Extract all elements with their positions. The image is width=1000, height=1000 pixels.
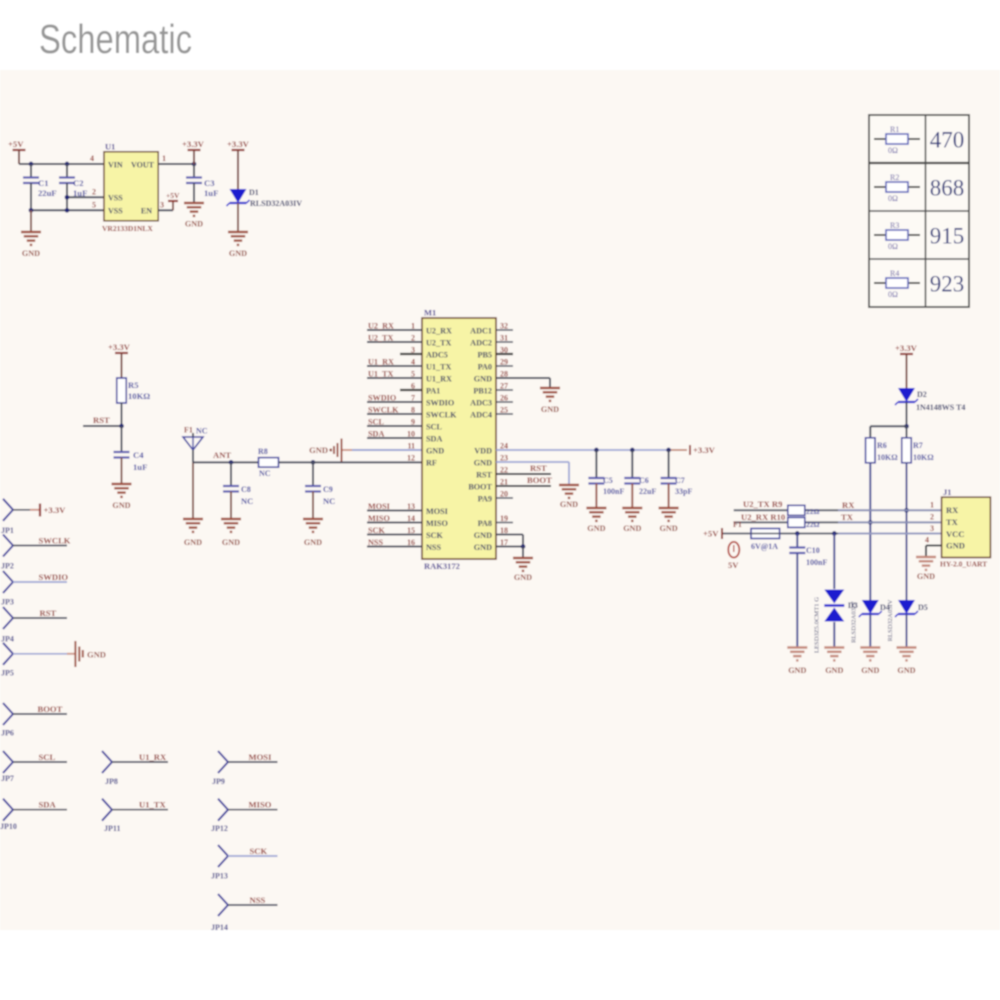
svg-text:J1: J1 — [943, 487, 952, 497]
svg-text:SCL: SCL — [426, 422, 442, 431]
svg-text:GND: GND — [514, 573, 532, 582]
svg-text:LESD3Z5.0CMT1 G: LESD3Z5.0CMT1 G — [814, 597, 821, 653]
svg-text:ADC5: ADC5 — [426, 350, 448, 359]
svg-text:MOSI: MOSI — [368, 502, 390, 511]
svg-text:+3.3V: +3.3V — [895, 343, 918, 353]
svg-text:4: 4 — [925, 536, 929, 545]
svg-text:C8: C8 — [241, 485, 251, 494]
svg-text:RAK3172: RAK3172 — [424, 561, 460, 571]
svg-text:U1: U1 — [105, 142, 115, 152]
svg-text:U2_TX R9: U2_TX R9 — [743, 499, 782, 509]
svg-text:JP5: JP5 — [1, 669, 14, 678]
svg-text:R5: R5 — [128, 380, 139, 390]
svg-text:MOSI: MOSI — [426, 507, 448, 516]
svg-text:BOOT: BOOT — [38, 704, 63, 714]
svg-text:10KΩ: 10KΩ — [128, 391, 150, 401]
svg-text:MISO: MISO — [368, 514, 390, 523]
svg-text:JP1: JP1 — [1, 526, 14, 535]
svg-text:2: 2 — [930, 513, 934, 522]
svg-text:U2_TX: U2_TX — [426, 338, 452, 347]
svg-text:NC: NC — [323, 496, 335, 506]
svg-text:ANT: ANT — [213, 450, 231, 460]
svg-text:+5V: +5V — [703, 529, 719, 539]
svg-text:1: 1 — [411, 322, 415, 331]
svg-text:SWCLK: SWCLK — [426, 410, 457, 419]
svg-text:M1: M1 — [424, 308, 436, 318]
svg-text:JP7: JP7 — [1, 774, 14, 783]
svg-text:BOOT: BOOT — [527, 475, 552, 485]
svg-text:GND: GND — [897, 666, 915, 675]
svg-text:GND: GND — [304, 538, 322, 547]
svg-text:U1_TX: U1_TX — [426, 362, 452, 371]
svg-text:0Ω: 0Ω — [888, 194, 898, 203]
svg-text:915: 915 — [930, 224, 965, 249]
svg-text:3: 3 — [930, 524, 934, 533]
svg-text:Schematic: Schematic — [39, 16, 192, 62]
svg-text:+3.3V: +3.3V — [227, 139, 250, 149]
svg-text:SWDIO: SWDIO — [426, 398, 454, 407]
svg-text:R6: R6 — [877, 441, 887, 450]
svg-text:+5V: +5V — [8, 139, 24, 149]
svg-text:PB12: PB12 — [473, 386, 492, 395]
svg-text:RLSD32A03IV: RLSD32A03IV — [887, 599, 894, 641]
svg-text:4: 4 — [90, 154, 94, 163]
svg-text:PA9: PA9 — [478, 494, 492, 503]
svg-text:PA0: PA0 — [478, 362, 492, 371]
svg-text:+5V: +5V — [166, 191, 180, 200]
svg-text:JP4: JP4 — [1, 635, 14, 644]
svg-text:9: 9 — [411, 418, 415, 427]
svg-text:3: 3 — [160, 201, 164, 210]
svg-text:RX: RX — [842, 500, 855, 510]
svg-text:VCC: VCC — [946, 529, 964, 539]
svg-text:U1_RX: U1_RX — [426, 374, 452, 383]
svg-text:VR2133D1NLX: VR2133D1NLX — [102, 224, 153, 233]
svg-text:470: 470 — [930, 128, 965, 153]
svg-text:1uF: 1uF — [204, 188, 218, 198]
svg-text:C9: C9 — [323, 485, 333, 494]
svg-text:100nF: 100nF — [603, 487, 624, 496]
svg-text:GND: GND — [22, 249, 40, 258]
svg-text:R3: R3 — [890, 221, 899, 230]
svg-text:GND: GND — [917, 572, 935, 581]
svg-text:JP8: JP8 — [105, 777, 118, 786]
svg-text:0Ω: 0Ω — [888, 242, 898, 251]
svg-text:U1_TX: U1_TX — [139, 800, 167, 810]
svg-text:GND: GND — [788, 666, 806, 675]
svg-text:26: 26 — [500, 394, 508, 403]
svg-text:1N4148WS T4: 1N4148WS T4 — [916, 403, 965, 412]
svg-text:2: 2 — [411, 334, 415, 343]
svg-text:6V@1A: 6V@1A — [751, 542, 778, 551]
svg-text:25: 25 — [500, 406, 508, 415]
svg-text:GND: GND — [222, 538, 240, 547]
svg-text:RLSD32A03IV: RLSD32A03IV — [250, 199, 302, 208]
svg-text:NSS: NSS — [368, 538, 383, 547]
svg-text:16: 16 — [407, 538, 415, 547]
svg-text:5V: 5V — [728, 560, 739, 570]
svg-text:U2_RX R10: U2_RX R10 — [741, 512, 785, 522]
svg-text:SWDIO: SWDIO — [368, 394, 396, 403]
svg-text:PA1: PA1 — [426, 386, 440, 395]
svg-text:RST: RST — [476, 470, 492, 479]
svg-text:19: 19 — [500, 514, 508, 523]
svg-text:100nF: 100nF — [806, 558, 827, 567]
svg-text:GND: GND — [87, 650, 106, 660]
svg-text:5: 5 — [411, 370, 415, 379]
svg-text:R7: R7 — [913, 441, 923, 450]
svg-text:MOSI: MOSI — [249, 752, 273, 762]
svg-text:C5: C5 — [603, 476, 613, 485]
svg-text:D2: D2 — [917, 390, 927, 399]
svg-text:NC: NC — [196, 427, 208, 436]
svg-text:U1_RX: U1_RX — [368, 358, 394, 367]
svg-text:PA8: PA8 — [478, 519, 492, 528]
svg-text:22Ω: 22Ω — [806, 507, 820, 516]
svg-text:D1: D1 — [249, 188, 259, 197]
svg-text:10KΩ: 10KΩ — [877, 453, 898, 462]
svg-text:1: 1 — [930, 501, 934, 510]
svg-text:C6: C6 — [639, 476, 649, 485]
svg-text:SCL: SCL — [39, 752, 56, 762]
svg-text:C3: C3 — [204, 178, 215, 188]
svg-text:JP14: JP14 — [211, 923, 228, 932]
svg-text:20: 20 — [500, 490, 508, 499]
svg-text:GND: GND — [112, 501, 130, 510]
svg-text:SWCLK: SWCLK — [368, 406, 399, 415]
svg-text:VSS: VSS — [108, 193, 123, 202]
svg-text:JP2: JP2 — [1, 562, 14, 571]
svg-text:GND: GND — [623, 524, 641, 533]
svg-text:GND: GND — [229, 249, 247, 258]
svg-text:SCK: SCK — [426, 531, 443, 540]
svg-text:+3.3V: +3.3V — [693, 445, 716, 455]
svg-text:ADC3: ADC3 — [470, 398, 492, 407]
svg-text:D5: D5 — [918, 603, 928, 612]
svg-text:JP12: JP12 — [211, 824, 228, 833]
svg-text:GND: GND — [426, 446, 444, 455]
svg-text:SDA: SDA — [426, 434, 442, 443]
svg-text:11: 11 — [407, 442, 415, 451]
svg-text:JP3: JP3 — [1, 598, 14, 607]
svg-text:U2_RX: U2_RX — [368, 322, 394, 331]
svg-text:0Ω: 0Ω — [888, 146, 898, 155]
svg-text:R4: R4 — [890, 269, 899, 278]
svg-text:GND: GND — [474, 543, 492, 552]
svg-text:GND: GND — [541, 405, 559, 414]
svg-text:VSS: VSS — [108, 206, 123, 215]
svg-text:RF: RF — [426, 458, 437, 467]
svg-text:31: 31 — [500, 334, 508, 343]
svg-text:ADC2: ADC2 — [470, 338, 492, 347]
svg-text:PB5: PB5 — [477, 350, 492, 359]
svg-text:SWDIO: SWDIO — [39, 572, 69, 582]
svg-text:NSS: NSS — [426, 543, 441, 552]
svg-text:RST: RST — [530, 463, 547, 473]
svg-text:1: 1 — [162, 154, 166, 163]
svg-text:GND: GND — [474, 374, 492, 383]
svg-text:GND: GND — [587, 524, 605, 533]
svg-text:SDA: SDA — [368, 430, 384, 439]
svg-text:GND: GND — [825, 666, 843, 675]
svg-text:GND: GND — [861, 666, 879, 675]
svg-text:JP11: JP11 — [104, 824, 120, 833]
svg-text:U2_RX: U2_RX — [426, 326, 452, 335]
svg-text:10KΩ: 10KΩ — [913, 453, 934, 462]
svg-text:32: 32 — [500, 322, 508, 331]
svg-text:NSS: NSS — [250, 895, 266, 905]
svg-text:TX: TX — [946, 517, 959, 527]
svg-text:868: 868 — [930, 176, 965, 201]
svg-text:F1: F1 — [184, 426, 193, 435]
svg-text:22uF: 22uF — [38, 188, 57, 198]
svg-text:SDA: SDA — [39, 800, 57, 810]
svg-text:7: 7 — [411, 394, 415, 403]
svg-text:NC: NC — [241, 496, 253, 506]
svg-text:GND: GND — [309, 445, 328, 455]
svg-text:12: 12 — [407, 454, 415, 463]
svg-text:JP6: JP6 — [1, 729, 14, 738]
svg-text:3: 3 — [411, 346, 415, 355]
svg-text:ADC1: ADC1 — [470, 326, 492, 335]
svg-text:HY-2.0_UART: HY-2.0_UART — [940, 560, 987, 569]
svg-text:JP13: JP13 — [211, 872, 228, 881]
svg-text:10: 10 — [407, 430, 415, 439]
svg-text:C1: C1 — [38, 178, 49, 188]
svg-text:GND: GND — [659, 524, 677, 533]
svg-text:VDD: VDD — [474, 446, 492, 455]
svg-text:JP10: JP10 — [0, 822, 17, 831]
svg-text:C7: C7 — [675, 476, 685, 485]
svg-text:EN: EN — [141, 206, 152, 215]
svg-text:923: 923 — [930, 272, 965, 297]
svg-text:C2: C2 — [73, 178, 84, 188]
svg-text:RLSD32A03IV: RLSD32A03IV — [851, 601, 858, 643]
svg-text:U1_RX: U1_RX — [139, 752, 167, 762]
svg-text:GND: GND — [560, 500, 578, 509]
svg-text:GND: GND — [184, 538, 202, 547]
svg-text:GND: GND — [185, 220, 203, 229]
svg-text:RST: RST — [93, 415, 110, 425]
svg-text:U2_TX: U2_TX — [368, 334, 394, 343]
svg-text:TX: TX — [841, 512, 854, 522]
svg-text:27: 27 — [500, 382, 508, 391]
svg-text:SWCLK: SWCLK — [39, 536, 71, 546]
svg-text:2: 2 — [92, 188, 96, 197]
svg-text:R1: R1 — [890, 125, 899, 134]
svg-text:VOUT: VOUT — [131, 161, 155, 170]
svg-text:C4: C4 — [133, 450, 144, 460]
svg-text:4: 4 — [411, 358, 415, 367]
svg-text:5: 5 — [92, 201, 96, 210]
svg-text:GND: GND — [946, 541, 965, 551]
svg-text:SCK: SCK — [368, 526, 385, 535]
svg-text:14: 14 — [407, 514, 415, 523]
svg-text:6: 6 — [411, 382, 415, 391]
svg-text:29: 29 — [500, 358, 508, 367]
svg-text:33pF: 33pF — [675, 487, 692, 496]
svg-text:0Ω: 0Ω — [888, 290, 898, 299]
svg-text:R2: R2 — [890, 173, 899, 182]
svg-text:1uF: 1uF — [133, 462, 147, 472]
svg-text:22uF: 22uF — [639, 487, 656, 496]
svg-text:+3.3V: +3.3V — [44, 505, 67, 515]
svg-text:GND: GND — [474, 531, 492, 540]
svg-text:RX: RX — [946, 505, 959, 515]
svg-text:MISO: MISO — [426, 519, 448, 528]
svg-text:13: 13 — [407, 502, 415, 511]
svg-text:BOOT: BOOT — [468, 482, 492, 491]
svg-text:U1_TX: U1_TX — [368, 370, 394, 379]
svg-text:JP9: JP9 — [212, 777, 225, 786]
svg-text:22Ω: 22Ω — [806, 520, 820, 529]
svg-text:+3.3V: +3.3V — [182, 139, 205, 149]
svg-text:15: 15 — [407, 526, 415, 535]
svg-text:F1: F1 — [733, 520, 742, 529]
svg-text:GND: GND — [474, 458, 492, 467]
svg-text:NC: NC — [259, 469, 271, 478]
svg-text:RST: RST — [40, 608, 57, 618]
svg-text:VIN: VIN — [108, 161, 123, 170]
svg-text:8: 8 — [411, 406, 415, 415]
svg-text:SCL: SCL — [368, 418, 384, 427]
svg-text:+3.3V: +3.3V — [108, 342, 131, 352]
svg-text:MISO: MISO — [249, 800, 272, 810]
svg-text:R8: R8 — [258, 447, 268, 456]
svg-text:C10: C10 — [806, 546, 820, 555]
svg-text:SCK: SCK — [250, 846, 268, 856]
svg-text:ADC4: ADC4 — [470, 410, 492, 419]
